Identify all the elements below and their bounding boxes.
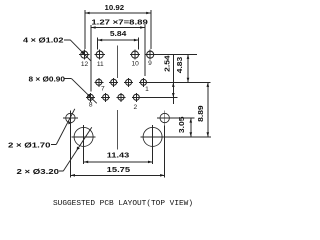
dimension 1.27x7=8.89 extension line right (pad 1 column): [144, 25, 146, 76]
svg-text:1: 1: [145, 86, 149, 93]
dimension 10.92 line: [85, 12, 151, 14]
pad 3 (Ø0.90): [124, 78, 133, 87]
svg-text:9: 9: [148, 60, 152, 67]
leader 4xØ1.02 diagonal to pad 12: [70, 40, 91, 61]
leader 4xØ1.02 tail: [64, 39, 71, 41]
reference line Ø1.70 holes axis: [170, 117, 195, 119]
dimension 8.89 arrow bottom: [207, 132, 210, 136]
leader 4xØ1.02 arrowhead: [82, 52, 85, 55]
dimension 8.89 arrow top: [207, 83, 210, 87]
dimension 10.92 arrow right: [146, 12, 150, 15]
svg-text:4.83: 4.83: [175, 57, 184, 74]
pad 10 (Ø1.02): [130, 50, 140, 60]
dimension 5.84 arrow right: [134, 39, 138, 42]
vertical centerline lower segment: [117, 110, 119, 150]
svg-text:10: 10: [132, 60, 140, 67]
pad 11 (Ø1.02): [95, 50, 105, 60]
svg-text:4 × Ø1.02: 4 × Ø1.02: [23, 36, 64, 45]
mounting hole Ø3.20 left: [72, 125, 96, 149]
pad 9 (Ø1.02): [145, 50, 155, 60]
dimension 15.75 extension right (Ø1.70 right center): [164, 126, 166, 178]
svg-text:5.84: 5.84: [110, 29, 127, 38]
dimension 1.27x7=8.89 arrow left: [91, 26, 95, 29]
svg-text:2: 2: [133, 104, 137, 111]
dimension 1.27x7=8.89 arrow right: [140, 26, 144, 29]
dimension 15.75 line: [70, 174, 164, 176]
pad 6 (Ø0.90): [101, 93, 110, 102]
dimension 10.92 extension line left (pad 12 column): [84, 10, 86, 49]
dimension 2.54 line (row2 to row3, outside arrows): [172, 54, 174, 104]
reference line row1 (from pad 9): [155, 53, 197, 55]
leader 2xØ1.70 diagonal through left Ø1.70 hole: [56, 109, 75, 145]
dimension 15.75 extension left (Ø1.70 left center): [69, 126, 71, 178]
svg-text:2 × Ø1.70: 2 × Ø1.70: [8, 141, 51, 150]
dimension 1.27x7=8.89 line: [91, 27, 145, 29]
svg-text:2.54: 2.54: [163, 55, 172, 72]
dimension 3.05 line: [190, 118, 192, 137]
svg-text:1.27 ×7=8.89: 1.27 ×7=8.89: [91, 17, 148, 26]
vertical centerline upper segment: [117, 45, 119, 78]
pad 5 (Ø0.90): [109, 78, 118, 87]
dimension 11.43 line: [84, 161, 153, 163]
dimension 15.75 arrow left: [71, 174, 75, 177]
pad 7 (Ø0.90): [94, 78, 103, 87]
dimension 3.05 arrow bottom: [190, 132, 193, 136]
dimension 3.05 arrow top: [190, 118, 193, 122]
dimension 1.27x7=8.89 extension line left (pad 8 column): [90, 25, 92, 92]
dimension 2.54 arrow lower: [172, 93, 175, 97]
svg-text:8 × Ø0.90: 8 × Ø0.90: [29, 74, 66, 83]
mounting hole Ø3.20 right: [141, 125, 165, 149]
pad 1 (Ø0.90): [139, 78, 148, 87]
svg-text:8.89: 8.89: [196, 105, 205, 122]
mounting hole Ø1.70 left: [63, 111, 78, 126]
mounting hole Ø1.70 right: [157, 111, 172, 126]
svg-text:3.05: 3.05: [177, 117, 186, 134]
svg-text:8: 8: [89, 101, 93, 108]
reference line row2 (from pad 1): [148, 81, 210, 83]
dimension 5.84 extension line right: [138, 38, 140, 50]
reference line row3 (from pad 2): [141, 97, 177, 99]
leader 2xØ3.20 tail: [59, 170, 63, 172]
leader 8xØ0.90 diagonal to pad 8: [71, 78, 97, 103]
leader 2xØ1.70 tail: [51, 144, 56, 146]
dimension 11.43 arrow left: [84, 161, 88, 164]
dimension 5.84 line: [98, 39, 139, 41]
dimension 4.83 arrow top: [187, 55, 190, 59]
leader 2xØ3.20 arrowhead: [77, 147, 80, 150]
dimension 4.83 line (row1 to row2): [187, 54, 189, 82]
dimension 2.54 arrow upper: [172, 83, 175, 87]
dimension 11.43 extension right (Ø3.20 right center): [152, 149, 154, 164]
svg-text:12: 12: [81, 61, 89, 68]
leader 2xØ3.20 diagonal through left Ø3.20 hole: [63, 127, 91, 171]
pad 4 (Ø0.90): [117, 93, 126, 102]
svg-text:15.75: 15.75: [107, 165, 131, 174]
dimension 11.43 extension left (Ø3.20 left center): [83, 149, 85, 164]
dimension 5.84 extension line left: [97, 38, 99, 50]
dimension 4.83 arrow bottom: [187, 78, 190, 82]
svg-text:SUGGESTED PCB LAYOUT(TOP VIEW): SUGGESTED PCB LAYOUT(TOP VIEW): [53, 200, 193, 208]
svg-text:11: 11: [97, 61, 104, 68]
reference line Ø3.20 holes axis: [164, 136, 211, 138]
pad 2 (Ø0.90): [132, 93, 141, 102]
dimension 11.43 arrow right: [148, 161, 152, 164]
svg-text:7: 7: [101, 86, 105, 93]
svg-text:2 × Ø3.20: 2 × Ø3.20: [17, 167, 60, 176]
leader 8xØ0.90 arrowhead: [88, 94, 91, 97]
svg-text:11.43: 11.43: [107, 151, 130, 160]
pad 12 (Ø1.02): [79, 50, 89, 60]
dimension 5.84 arrow left: [98, 39, 102, 42]
dimension 15.75 arrow right: [160, 174, 164, 177]
leader 8xØ0.90 tail: [65, 77, 72, 79]
leader 2xØ1.70 arrowhead: [68, 121, 71, 124]
pad 8 (Ø0.90): [86, 93, 95, 102]
svg-text:10.92: 10.92: [105, 3, 125, 12]
dimension 10.92 extension line right (pad 9 column): [150, 10, 152, 49]
dimension 8.89 line (row2 to mount hole axis): [207, 82, 209, 137]
dimension 10.92 arrow left: [85, 12, 89, 15]
